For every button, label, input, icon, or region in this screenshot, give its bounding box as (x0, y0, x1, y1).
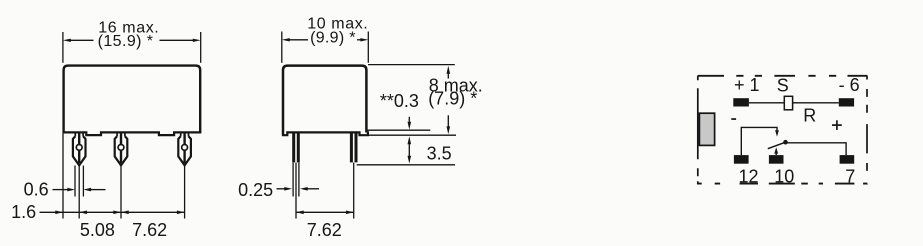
label 8 max. (429, 76, 483, 96)
pin 1 front (blade with hole) (73, 132, 86, 166)
terminal 1 pad (733, 98, 749, 106)
label 5.08 (80, 220, 115, 240)
relay body side bottom profile with feet (282, 131, 368, 135)
svg-text:7: 7 (845, 166, 855, 186)
svg-text:5.08: 5.08 (80, 220, 115, 240)
terminal 10 pad (769, 155, 784, 164)
svg-text:0.25: 0.25 (238, 180, 273, 200)
label - 6 (839, 75, 860, 95)
terminal 6 pad (839, 98, 854, 106)
coil wire left segment (terminal 1 to resistor) (749, 102, 784, 104)
center extension line below pin 2 (120, 166, 122, 219)
svg-text:10: 10 (774, 166, 794, 186)
label R (803, 106, 816, 126)
pin-end reference line (357, 164, 455, 166)
label (9.9) * (310, 30, 356, 47)
top width dimension 10 max: extension lines (282, 32, 369, 63)
extension line from body top to height dimension (368, 64, 455, 66)
label 7 (845, 166, 855, 186)
label 10 (774, 166, 794, 186)
contact pivot node (783, 140, 788, 145)
extension line: body left edge down to dimension rows (62, 134, 64, 219)
label 12 (738, 166, 758, 186)
top width dimension 16 max: dimension line with arrows (63, 39, 201, 42)
coil / magnet marking (gray bar) (699, 113, 714, 145)
relay body front outline (64, 66, 201, 133)
dimension 0.25 (pin thickness) (238, 180, 319, 200)
terminal 7 pad (840, 155, 855, 164)
movable contact blade (768, 142, 786, 149)
label 7.62 (side view) (307, 220, 342, 240)
svg-text:+ 1: + 1 (734, 75, 760, 95)
wire from terminal 12 with down arrow (741, 127, 779, 155)
relay body front bottom profile with standoff feet (63, 132, 202, 135)
coil polarity minus mark (731, 118, 736, 120)
center extension line below side pin 2 (353, 163, 355, 219)
label 10 max. (307, 15, 368, 32)
pin 2 side (edge-on blade) (350, 133, 358, 162)
label S (777, 76, 789, 96)
dimension 0.6 (pin width) (24, 180, 106, 200)
top width dimension 16 max: extension lines (63, 32, 201, 63)
wire from pivot to terminal 7 (786, 143, 847, 155)
resistor R (784, 96, 792, 110)
svg-text:3.5: 3.5 (427, 143, 452, 163)
top width dimension 10 max: dimension line with arrows (282, 38, 369, 41)
stub and up arrow from terminal 10 (774, 147, 778, 155)
dimension 3.5 (pin length below seating plane) (408, 136, 412, 163)
center extension line below pin 3 (184, 166, 186, 219)
seating-plane reference line (368, 134, 456, 136)
label (15.9) * (98, 33, 154, 50)
pin 1 side (edge-on blade) (292, 133, 300, 162)
svg-text:(9.9) *: (9.9) * (310, 30, 356, 47)
extension lines below side pin 1 (293, 163, 299, 219)
svg-text:**0.3: **0.3 (380, 91, 419, 111)
dashed outline of relay (bottom view) (698, 76, 868, 185)
dimension line 7.62 (side view) (296, 211, 354, 215)
label 1.6 (11, 202, 36, 222)
svg-text:1.6: 1.6 (11, 202, 36, 222)
extension lines below pin 1 (thickness + center) (75, 166, 83, 219)
label 16 max. (98, 20, 159, 37)
coil wire right segment (resistor to terminal 6) (793, 102, 839, 104)
svg-text:(7.9) *: (7.9) * (428, 89, 477, 109)
height dimension 8 max: arrows and shaft (447, 66, 451, 135)
svg-text:R: R (803, 106, 816, 126)
svg-text:12: 12 (738, 166, 758, 186)
chain dimension line 1.6 / 5.08 / 7.62 (40, 211, 185, 215)
svg-text:- 6: - 6 (839, 75, 860, 95)
terminal 12 pad (734, 155, 749, 164)
case-bottom reference line (367, 129, 430, 131)
label + 1 (734, 75, 760, 95)
label (7.9) * (428, 89, 477, 109)
pin 2 front (blade with hole) (115, 132, 128, 166)
svg-text:S: S (777, 76, 789, 96)
svg-text:(15.9) *: (15.9) * (98, 33, 154, 50)
svg-text:7.62: 7.62 (307, 220, 342, 240)
standoff dimension **0.3: upper arrow (408, 117, 412, 130)
label 7.62 (front view) (132, 220, 167, 240)
label 3.5 (427, 143, 452, 163)
relay body side outline (283, 66, 366, 136)
svg-text:7.62: 7.62 (132, 220, 167, 240)
coil polarity plus mark (832, 120, 842, 130)
pin 3 front (blade with hole) (178, 132, 191, 166)
label **0.3 (380, 91, 419, 111)
svg-text:0.6: 0.6 (24, 180, 49, 200)
